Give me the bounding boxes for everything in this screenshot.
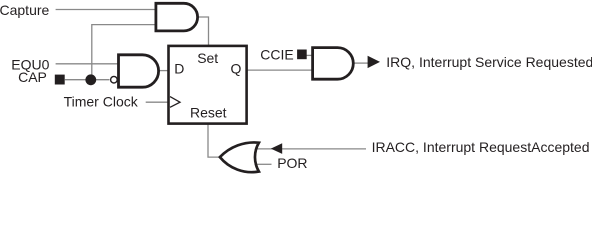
svg-text:CAP: CAP <box>18 69 47 85</box>
or-gate OR1 (reset gate, mirrored) <box>220 142 259 172</box>
and-gate AND3 (CCIE gate) <box>313 48 354 80</box>
junction dot on CAP line <box>85 74 96 85</box>
svg-text:Capture: Capture <box>0 2 50 18</box>
wire Timer Clock to flip-flop clock input <box>146 101 169 103</box>
wire Reset input from OR1 output <box>208 124 220 157</box>
terminal square CCIE <box>297 50 307 60</box>
wire EQU0 to AND2 top input <box>56 63 121 65</box>
svg-text:Set: Set <box>197 50 218 66</box>
wire CAP to AND2 bubble <box>65 79 110 81</box>
wire CCIE square to AND3 top input <box>307 54 315 56</box>
wire POR to OR1 bottom input <box>257 163 272 165</box>
svg-text:IRQ, Interrupt Service Request: IRQ, Interrupt Service Requested <box>386 54 592 70</box>
terminal square CAP <box>55 75 65 85</box>
wire Capture to AND1 top input <box>56 9 157 11</box>
inverter bubble on AND2 CAP input <box>111 76 118 83</box>
svg-text:D: D <box>174 61 184 77</box>
wire Q output to AND3 bottom input <box>247 69 314 71</box>
svg-text:POR: POR <box>277 155 307 171</box>
arrow IRACC input <box>271 143 282 154</box>
wire AND3 output to IRQ arrow <box>352 62 368 64</box>
wire IRACC to OR1 top input <box>257 148 367 150</box>
wire AND2 output to D input <box>157 70 169 72</box>
svg-text:Timer Clock: Timer Clock <box>64 94 139 110</box>
wire AND1 output to Set input <box>197 17 209 46</box>
arrow IRQ output <box>368 56 380 68</box>
flip-flop U1 box <box>169 46 247 124</box>
svg-text:IRACC, Interrupt RequestAccept: IRACC, Interrupt RequestAccepted <box>372 139 590 155</box>
svg-text:Q: Q <box>231 61 242 77</box>
flip-flop clock triangle <box>170 97 180 108</box>
and-gate AND1 (Capture gate) <box>156 3 198 31</box>
and-gate AND2 (EQU0/CAP gate) <box>119 55 159 87</box>
svg-text:CCIE: CCIE <box>260 47 293 63</box>
svg-text:Reset: Reset <box>190 105 227 121</box>
wire CAP branch to AND1 bottom input <box>92 25 157 80</box>
